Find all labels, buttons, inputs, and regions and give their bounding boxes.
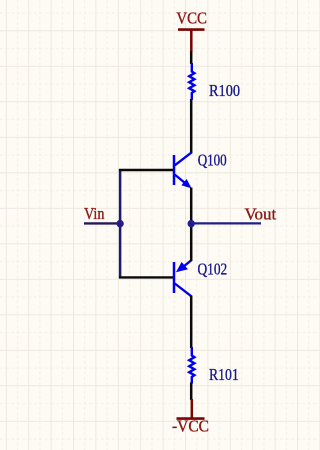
transistor Q102 (PNP): [174, 260, 191, 296]
wire to Q100 base: [119, 169, 173, 171]
wire Q100 emitter to output node: [190, 188, 193, 225]
wire Vin to input node: [84, 222, 120, 224]
wire R100 to Q100 collector: [190, 99, 193, 154]
svg-text:Vin: Vin: [84, 204, 105, 223]
svg-text:Q102: Q102: [198, 259, 228, 278]
svg-text:Vout: Vout: [245, 205, 277, 224]
svg-text:R101: R101: [209, 365, 239, 384]
svg-text:-VCC: -VCC: [172, 416, 209, 435]
wire input node vertical: [119, 170, 122, 277]
resistor R100: [189, 63, 194, 100]
wire output node to Vout: [191, 222, 261, 224]
wire VCC to R100: [190, 51, 193, 64]
wire Q102 collector to R101: [190, 296, 193, 349]
transistor Q100 (NPN): [174, 153, 192, 189]
power symbol VCC: [176, 9, 207, 52]
wire output node to Q102 emitter: [190, 224, 193, 262]
svg-text:VCC: VCC: [176, 9, 207, 28]
junction output node: [188, 220, 195, 227]
wire to Q102 base: [119, 276, 173, 278]
svg-text:R100: R100: [209, 81, 240, 100]
power symbol -VCC: [172, 399, 209, 435]
resistor R101: [189, 347, 194, 384]
wire R101 to -VCC: [190, 383, 193, 401]
svg-text:Q100: Q100: [198, 150, 227, 169]
junction input node: [116, 220, 123, 227]
